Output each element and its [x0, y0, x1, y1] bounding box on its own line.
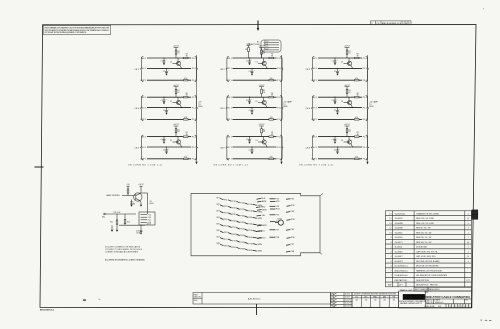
svg-text:13-00114: 13-00114: [395, 232, 403, 234]
svg-text:1: 1: [468, 261, 469, 263]
svg-text:.01UF: .01UF: [136, 232, 140, 234]
svg-text:H/D INDICATOR CONN OVERVIEW: H/D INDICATOR CONN OVERVIEW: [416, 274, 447, 277]
svg-text:BS-D-H500-0-5: BS-D-H500-0-5: [382, 23, 402, 25]
cable tap N5: [270, 215, 280, 217]
NC connections box: [246, 40, 281, 52]
cable wire group W8: [217, 243, 263, 253]
svg-text:GRN: GRN: [257, 244, 262, 246]
input terminal: [104, 213, 106, 215]
svg-text:13-00338: 13-00338: [395, 228, 403, 230]
svg-text:USED ON: USED ON: [194, 297, 201, 299]
svg-text:3: 3: [464, 306, 465, 308]
svg-text:DESCRIPTION: DESCRIPTION: [416, 280, 430, 282]
svg-text:7: 7: [453, 306, 454, 308]
svg-text:15: 15: [389, 218, 391, 220]
parts row 13: [390, 269, 443, 272]
bus column 2: [280, 55, 292, 164]
svg-text:REV: REV: [465, 300, 468, 302]
svg-text:13: 13: [389, 232, 391, 234]
cable tap F3: [286, 211, 295, 213]
svg-text:A-ML-H500-0-5: A-ML-H500-0-5: [395, 269, 408, 272]
svg-text:R13: R13: [127, 222, 130, 224]
svg-text:8: 8: [450, 306, 451, 308]
svg-text:ALL WIRES SHOWN ARE NO 22 AWG: ALL WIRES SHOWN ARE NO 22 AWG STRANDED: [105, 258, 146, 261]
circuit module CB8: [220, 124, 283, 160]
svg-text:CHK: CHK: [331, 297, 334, 299]
svg-text:GRN: GRN: [257, 251, 262, 253]
cable tap M1: [257, 198, 266, 200]
circuit module CB4: [135, 85, 198, 121]
capacitor C16: [140, 227, 143, 234]
resistor R12: [116, 214, 145, 230]
svg-text:14: 14: [467, 242, 469, 244]
cable wire group W6: [217, 230, 263, 240]
signature block: [330, 292, 352, 307]
svg-text:ON CONN NO 2 (CM 1-2): ON CONN NO 2 (CM 1-2): [214, 164, 248, 166]
svg-text:+5V R: +5V R: [146, 224, 152, 226]
parts row 12: [390, 266, 439, 268]
svg-text:.005: .005: [392, 300, 395, 302]
resistor R13: [124, 214, 126, 220]
svg-text:R12: R12: [110, 222, 113, 224]
svg-text:P1-11: P1-11: [264, 44, 268, 46]
ground R12: [116, 230, 118, 232]
svg-text:10-9-70: 10-9-70: [345, 294, 350, 296]
top right speck: [483, 7, 484, 10]
svg-text:4: 4: [390, 261, 391, 263]
parts row 9: [390, 250, 468, 253]
circuit module CB6: [306, 85, 369, 121]
svg-text:PART NO.: PART NO.: [430, 283, 439, 286]
svg-text:P1-13: P1-13: [264, 49, 268, 51]
svg-text:SIZE: SIZE: [424, 300, 427, 302]
cable tap M3: [256, 207, 266, 209]
svg-text:digital: digital: [404, 295, 425, 300]
svg-text:90-06073: 90-06073: [395, 261, 403, 263]
svg-text:H500: H500: [194, 300, 198, 302]
svg-text:RES 3K, 5%, 1W: RES 3K, 5%, 1W: [416, 228, 431, 230]
svg-text:H500: H500: [150, 203, 154, 205]
svg-text:BLK: BLK: [261, 198, 266, 200]
cable tap N6: [270, 221, 280, 223]
svg-text:.005: .005: [383, 300, 386, 302]
cable tap N1: [270, 199, 280, 201]
svg-text:H500: H500: [369, 106, 373, 108]
svg-text:H500: H500: [283, 106, 287, 108]
svg-text:2: 2: [467, 306, 468, 308]
tolerance block: [352, 292, 399, 307]
svg-text:VIO: VIO: [262, 238, 266, 240]
cable wire group W7: [217, 237, 263, 247]
top fold tick: [257, 21, 259, 29]
svg-text:TRANSISTOR DEC 3639B: TRANSISTOR DEC 3639B: [416, 212, 439, 215]
svg-text:1: 1: [469, 306, 470, 308]
cable wire group W3: [217, 210, 263, 220]
general notes box: [43, 26, 111, 35]
ground input: [111, 230, 113, 232]
svg-text:REF PART NO.: REF PART NO.: [395, 279, 409, 282]
svg-text:DEC: DEC: [364, 296, 367, 298]
cable tap N4: [270, 209, 280, 211]
svg-text:14: 14: [467, 256, 469, 258]
cable tap F6: [287, 237, 296, 239]
base wire: [122, 195, 135, 197]
svg-text:COPYRIGHT 1971 BY DIGITAL EQUI: COPYRIGHT 1971 BY DIGITAL EQUIPMENT CORP…: [44, 31, 87, 34]
svg-text:13-00210: 13-00210: [395, 237, 403, 239]
svg-text:HARNESS-LIST H500 MOUNT: HARNESS-LIST H500 MOUNT: [416, 269, 443, 272]
bus column 3: [366, 55, 378, 164]
svg-text:BLU: BLU: [261, 231, 266, 233]
svg-text:1: 1: [468, 251, 469, 253]
svg-text:RES 470, 5%, 1W: RES 470, 5%, 1W: [416, 232, 431, 234]
svg-text:13-00247: 13-00247: [395, 218, 403, 220]
cable wire group W2: [217, 204, 263, 214]
svg-text:H500: H500: [473, 217, 477, 219]
svg-text:13-00438: 13-00438: [395, 223, 403, 225]
connector corner mark top: [320, 194, 322, 196]
svg-text:.005: .005: [355, 300, 358, 302]
parts row 4: [389, 228, 468, 230]
parts row 3: [389, 223, 468, 225]
svg-text:D-UA-H500-0-0: D-UA-H500-0-0: [395, 274, 408, 277]
parts row 14: [390, 274, 447, 277]
bus column 1: [195, 55, 202, 164]
cable tap F8: [286, 251, 295, 253]
connector corner mark bottom: [320, 253, 322, 255]
cable tap F1: [286, 198, 295, 200]
svg-text:RES 4.7K, 5%, 1/4W: RES 4.7K, 5%, 1/4W: [416, 218, 434, 220]
svg-text:NUMBER: NUMBER: [434, 300, 440, 302]
wire chains: [217, 197, 296, 253]
svg-text:LAMP DRIVER: LAMP DRIVER: [106, 194, 120, 197]
svg-text:PROJ: PROJ: [331, 303, 335, 305]
parts row 6: [390, 237, 468, 239]
circuit module CB7: [135, 124, 198, 160]
svg-text:ON CONN NO 1 (CM 1-1): ON CONN NO 1 (CM 1-1): [128, 164, 162, 166]
svg-text:10-9-70: 10-9-70: [345, 297, 350, 299]
svg-text:PARTS LIST: PARTS LIST: [400, 289, 413, 292]
parts row 1: [389, 212, 468, 215]
svg-text:BS-D-H500-0-5: BS-D-H500-0-5: [40, 310, 55, 312]
svg-text:RES 100, 5%, 1W: RES 100, 5%, 1W: [416, 242, 431, 244]
svg-text:1: 1: [390, 247, 391, 249]
svg-text:ORN: ORN: [262, 209, 267, 211]
+5V stub B: [140, 186, 142, 192]
svg-text:1: 1: [468, 232, 469, 234]
cable tap F7: [286, 244, 295, 246]
cable tap F5: [286, 229, 295, 231]
svg-text:15: 15: [467, 218, 469, 220]
svg-text:DRN: DRN: [331, 294, 334, 296]
ground Q10 emitter: [140, 205, 142, 207]
svg-text:4: 4: [390, 251, 391, 253]
svg-text:GRN: GRN: [262, 225, 267, 227]
wire to cap: [119, 224, 145, 226]
NC box drop wire: [261, 52, 263, 58]
svg-text:GRN: GRN: [257, 218, 262, 220]
svg-text:A-ML-H500-0-5: A-ML-H500-0-5: [248, 297, 260, 300]
svg-text:BRN: BRN: [262, 201, 267, 203]
svg-text:B-CS-H500-0-1: B-CS-H500-0-1: [395, 266, 408, 268]
parts row 15: [395, 279, 471, 282]
svg-text:+5V LP: +5V LP: [138, 184, 144, 186]
svg-text:10-14-70: 10-14-70: [345, 306, 351, 308]
cable wire group W1: [217, 197, 263, 207]
parts row 7: [390, 242, 469, 244]
circuit module CB3: [306, 46, 369, 82]
digital logo: [403, 294, 425, 300]
parts row 2: [389, 218, 469, 220]
parts row 10: [390, 255, 469, 258]
svg-text:H500-0-5: H500-0-5: [435, 302, 444, 304]
cable tap F2: [287, 205, 296, 207]
svg-text:SECOND CIRCUIT BOARD: SECOND CIRCUIT BOARD: [416, 260, 440, 263]
svg-text:2: 2: [468, 223, 469, 225]
bottom fold tick: [256, 304, 258, 315]
svg-text:P1-7: P1-7: [148, 220, 151, 222]
svg-text:INDICATOR CABLE CONN(H500): INDICATOR CABLE CONN(H500): [425, 295, 471, 299]
svg-text:1: 1: [468, 237, 469, 239]
LAMP DRIVER DETAIL: [122, 186, 148, 214]
svg-text:4: 4: [390, 237, 391, 239]
PARTS TABLE: [386, 211, 472, 287]
svg-text:4: 4: [390, 242, 391, 244]
svg-text:1: 1: [390, 275, 391, 277]
svg-text:11-00114: 11-00114: [395, 247, 403, 249]
svg-text:CAP .01UF, 100V, 20%: CAP .01UF, 100V, 20%: [416, 255, 436, 258]
svg-text:UNLESS OTHERWISE SPECIFIED DIM: UNLESS OTHERWISE SPECIFIED DIMENSION IN …: [354, 294, 396, 296]
svg-text:7: 7: [390, 270, 391, 272]
svg-text:10-12-70: 10-12-70: [345, 303, 351, 305]
svg-text:P1-10: P1-10: [264, 41, 268, 43]
pin list box: [139, 212, 155, 225]
CONNECTOR OUTLINE: [191, 193, 320, 256]
svg-text:CAP 6.8UF, 35V, 10% TA: CAP 6.8UF, 35V, 10% TA: [416, 250, 438, 253]
transistor Q10: [134, 193, 142, 201]
svg-text:13: 13: [389, 223, 391, 225]
+5V stub A: [127, 186, 129, 189]
speck 2: [99, 298, 101, 301]
svg-text:4: 4: [461, 306, 462, 308]
circuit module CB5: [220, 85, 283, 121]
svg-text:CONNECTORS AND ACCESSORIES: CONNECTORS AND ACCESSORIES: [105, 250, 139, 253]
resistor R5 feed: [245, 44, 251, 58]
svg-text:10-00017: 10-00017: [395, 256, 403, 258]
svg-text:ON CONN NO 3 (CM 1-3): ON CONN NO 3 (CM 1-3): [299, 164, 333, 166]
svg-text:12: 12: [389, 228, 391, 230]
svg-text:4: 4: [390, 256, 391, 258]
collector tap to right: [141, 192, 148, 194]
svg-text:(IN): (IN): [102, 216, 105, 218]
svg-text:H500: H500: [198, 106, 202, 108]
circuit module CB9: [306, 124, 369, 160]
parts row 8: [390, 247, 468, 249]
svg-text:DESCRIPTION: DESCRIPTION: [416, 284, 429, 286]
svg-text:J1: J1: [322, 194, 324, 196]
svg-text:15-05243-01: 15-05243-01: [395, 213, 406, 215]
svg-text:10-00016: 10-00016: [395, 251, 403, 253]
svg-text:.005: .005: [365, 300, 368, 302]
svg-text:13-00171: 13-00171: [395, 242, 403, 244]
svg-text:DIODE D662: DIODE D662: [416, 247, 427, 249]
cable tap N7: [270, 230, 280, 232]
cable tap N2: [270, 201, 280, 203]
cable tap F4: [287, 219, 296, 221]
cable tap M8: [257, 238, 266, 240]
revision strip: [371, 21, 412, 25]
svg-text:C16: C16: [136, 230, 139, 232]
svg-text:MODULE LIST MOUNTED: MODULE LIST MOUNTED: [416, 266, 439, 268]
cable tap M2: [257, 201, 267, 203]
cable tap N8: [270, 237, 280, 239]
cable tap M4: [257, 209, 267, 211]
svg-text:SHT.: SHT.: [438, 306, 442, 308]
svg-text:TITLE: TITLE: [424, 292, 428, 294]
svg-text:10-12-70: 10-12-70: [345, 300, 351, 302]
cable tap M6: [257, 225, 267, 227]
svg-text:FIRST: FIRST: [194, 294, 198, 296]
grommet: [275, 219, 283, 226]
parts row 5: [389, 232, 468, 234]
svg-text:1: 1: [468, 247, 469, 249]
svg-text:TOL: TOL: [355, 296, 358, 298]
circuit module CB2: [220, 46, 283, 82]
circuit module CB1: [135, 46, 198, 82]
title area frame: [399, 291, 472, 308]
svg-text:FIN: FIN: [393, 296, 395, 298]
svg-text:RES 220, 5%, 1W: RES 220, 5%, 1W: [416, 237, 431, 239]
svg-text:RED: RED: [261, 207, 266, 209]
cable wire group W5: [217, 224, 263, 234]
svg-text:3: 3: [468, 228, 469, 230]
drawing number side boxes: [472, 210, 478, 219]
svg-text:CS: CS: [376, 23, 380, 25]
resistor R10: [127, 189, 129, 193]
ground base leg: [130, 205, 132, 207]
parts header row: [388, 282, 439, 287]
svg-text:P1-5: P1-5: [148, 214, 151, 216]
svg-text:P1-6: P1-6: [148, 217, 151, 219]
svg-text:4: 4: [390, 266, 391, 268]
speck 1: [83, 299, 86, 300]
svg-text:GRN: GRN: [257, 211, 262, 213]
cable tap M7: [256, 231, 265, 233]
cable wire group W4: [217, 217, 263, 227]
svg-text:6: 6: [455, 306, 456, 308]
svg-text:RES 1.5K, 5%, 1/4W: RES 1.5K, 5%, 1/4W: [416, 223, 434, 225]
svg-text:5: 5: [458, 306, 459, 308]
svg-text:CODE: CODE: [429, 300, 433, 302]
next assy row: [414, 287, 471, 291]
svg-text:R11 1.5K: R11 1.5K: [114, 212, 122, 214]
svg-text:.005: .005: [374, 300, 377, 302]
cable tap M5: [257, 215, 267, 217]
bottom right dashes: [481, 320, 483, 321]
svg-text:P1-12: P1-12: [264, 46, 268, 48]
left fold tick: [35, 166, 44, 168]
svg-text:15: 15: [389, 213, 391, 215]
first-used-on strip: [193, 293, 330, 305]
parts row 11: [390, 260, 468, 263]
svg-text:1: 1: [468, 213, 469, 215]
cable tap N3: [270, 206, 280, 208]
drawing border frame: [40, 25, 476, 308]
